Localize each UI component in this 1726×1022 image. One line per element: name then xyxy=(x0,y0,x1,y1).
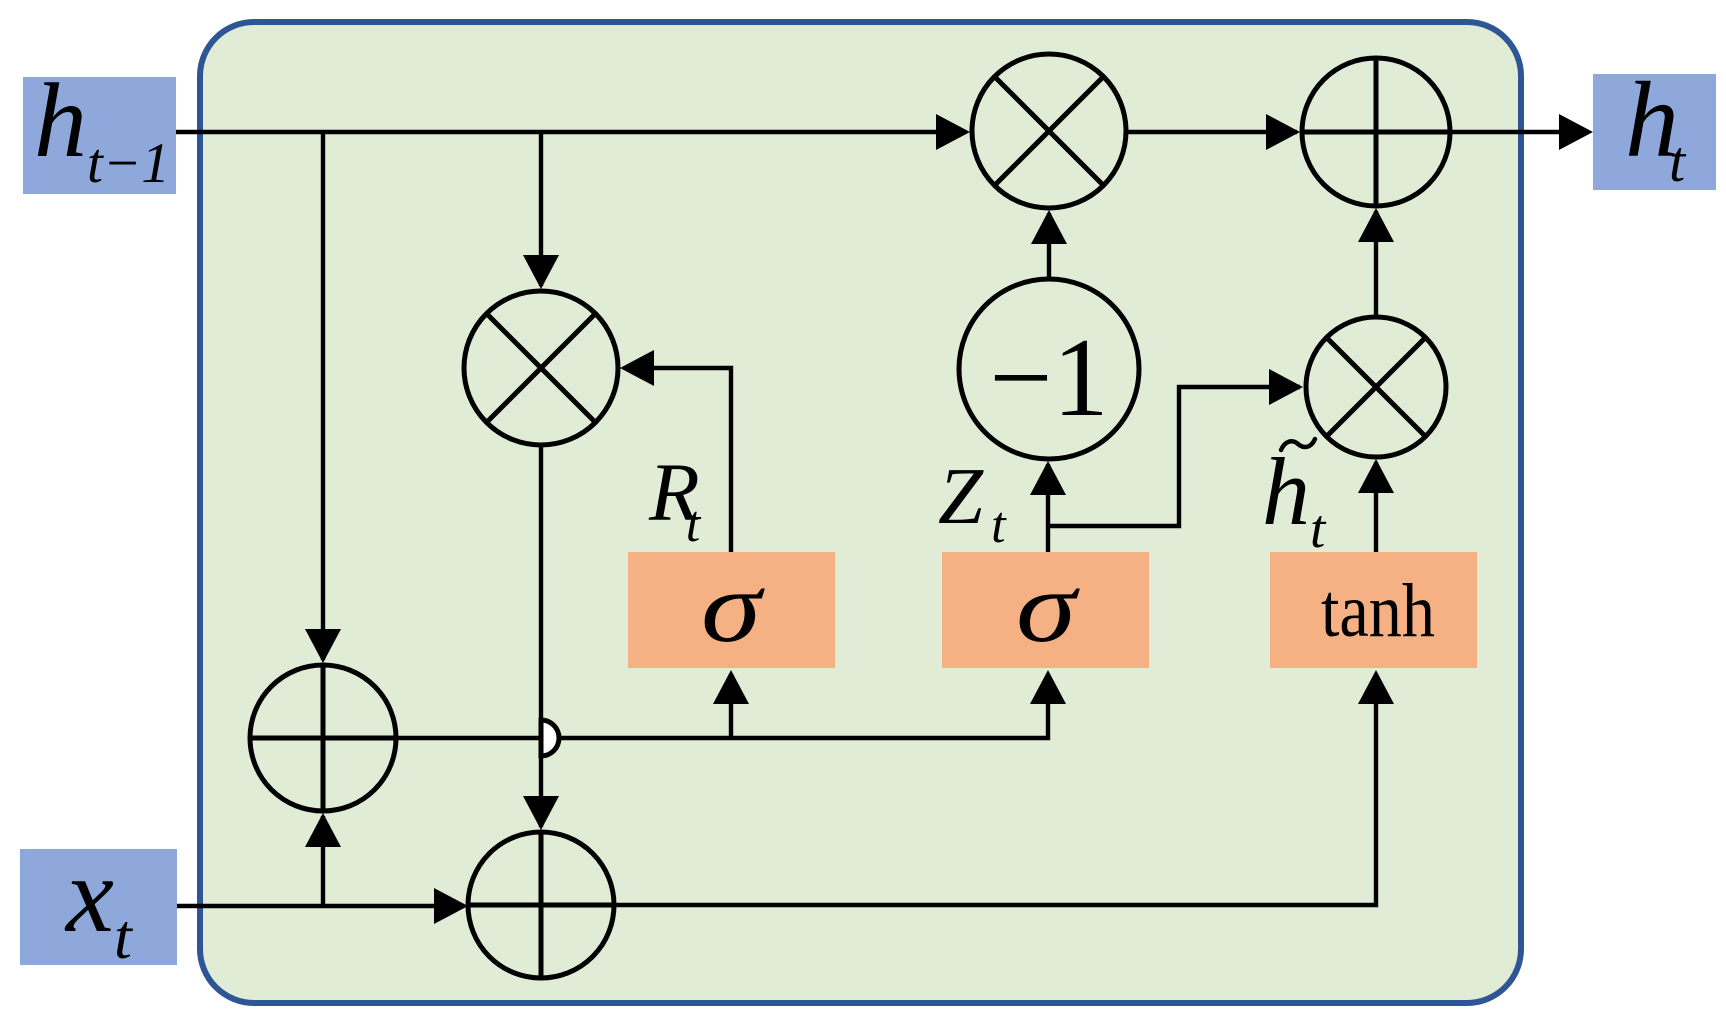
arrow right into top plus xyxy=(1266,114,1300,150)
arrow down into bottom plus xyxy=(523,796,559,830)
wire: Z_t branch to right multiply xyxy=(1048,387,1300,526)
wire: branch up into sigma1 xyxy=(729,674,733,738)
wire: top plus to h_t output xyxy=(1450,130,1588,134)
multiply node: reset gate xyxy=(464,291,618,445)
arrow right into h_t box xyxy=(1559,114,1593,150)
gate box tanh xyxy=(1270,552,1477,668)
gate box sigma1 xyxy=(628,552,835,668)
svg-text:σ: σ xyxy=(1016,551,1080,664)
arrow up into minus-one xyxy=(1030,461,1066,495)
wire: right multiply up to top plus xyxy=(1374,211,1378,317)
plus node: top right output adder xyxy=(1302,58,1450,206)
svg-text:ht: ht xyxy=(1625,61,1687,194)
input box x_t xyxy=(20,849,177,965)
hop: line jump over vertical wire xyxy=(541,720,559,756)
arrow down into reset multiply xyxy=(523,255,559,289)
arrow up into right multiply xyxy=(1358,459,1394,493)
wire: top multiply to top plus xyxy=(1126,130,1297,134)
arrow up into tanh xyxy=(1358,670,1394,704)
wire: minus-one to top multiply xyxy=(1047,213,1051,279)
output box h_t xyxy=(1593,74,1716,190)
GRU cell outer rounded box xyxy=(200,22,1521,1003)
svg-text:Rt: Rt xyxy=(648,446,702,553)
arrow up into left plus xyxy=(305,813,341,847)
wire: branch down to left plus xyxy=(321,132,325,660)
wire: reset multiply output down to bottom plus xyxy=(539,447,543,827)
arrow right into bottom plus xyxy=(434,888,468,924)
plus node: bottom adder xyxy=(468,832,614,978)
minus-one node xyxy=(959,279,1139,459)
arrow up into top plus xyxy=(1358,208,1394,242)
arrow up into top multiply xyxy=(1031,210,1067,244)
wire: bottom plus output to tanh xyxy=(614,674,1376,905)
multiply node: top (h x Z) xyxy=(972,54,1126,208)
plus node: left adder xyxy=(250,665,396,811)
arrow down into left plus xyxy=(305,629,341,663)
arrow into top multiply xyxy=(936,114,970,150)
multiply node: right (h~ x (1-Z)) xyxy=(1306,317,1446,457)
arrow up into sigma1 xyxy=(713,670,749,704)
gate box sigma2 xyxy=(942,552,1149,668)
svg-text:σ: σ xyxy=(701,551,765,664)
wire: R_t from sigma1 to reset multiply xyxy=(625,368,731,552)
svg-text:−1: −1 xyxy=(989,316,1108,440)
wire: h_{t-1} main horizontal line xyxy=(176,130,966,134)
wire: Z_t from sigma2 up to minus-one xyxy=(1046,464,1050,552)
wire: branch down to reset multiply xyxy=(539,132,543,286)
arrow right into right multiply xyxy=(1269,369,1303,405)
wire: left plus output to sigma gates xyxy=(396,674,1048,738)
arrow up into sigma2 xyxy=(1030,670,1066,704)
wire: tanh up to right multiply xyxy=(1374,462,1378,552)
wire: x_t main horizontal line xyxy=(177,904,464,908)
wire: x_t branch up into left plus xyxy=(321,816,325,906)
arrow left into reset multiply xyxy=(620,350,654,386)
input box h_{t-1} xyxy=(23,77,176,194)
svg-text:tanh: tanh xyxy=(1321,569,1435,653)
